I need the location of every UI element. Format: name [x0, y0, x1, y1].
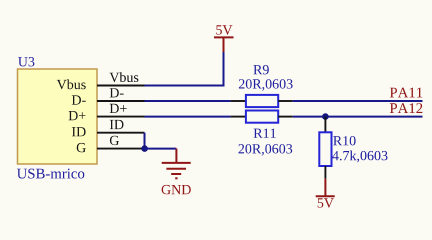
- pin D- (pin line): [97, 100, 145, 102]
- resistor R9 body: [246, 95, 278, 107]
- junction dot on D+ at R10 tap: [322, 113, 329, 120]
- resistor R9 pin left: [231, 100, 246, 102]
- power symbol 5V (top): [214, 37, 234, 52]
- power symbol 5V (bottom): [316, 179, 335, 197]
- designator U3: [18, 57, 34, 66]
- wire D+ from R11 to PA12: [293, 116, 423, 118]
- value 4.7k,0603 (R10): [332, 151, 387, 163]
- net label ID: [110, 120, 124, 129]
- junction dot ID/G node: [141, 145, 148, 152]
- net label PA12: [390, 103, 423, 113]
- pin ID (pin line): [97, 132, 145, 134]
- net label Vbus: [110, 72, 139, 82]
- resistor R11 body: [246, 111, 278, 123]
- net label G: [110, 136, 119, 145]
- wire G junction to GND: [145, 148, 177, 150]
- pin G (pin line): [97, 148, 145, 150]
- net label PA11: [390, 88, 422, 98]
- wire ID down to G junction: [144, 133, 146, 149]
- pin Vbus (pin line): [97, 85, 145, 87]
- pin D+ (pin line): [97, 116, 145, 118]
- wire D- from pin to R9: [145, 100, 231, 102]
- designator R10: [333, 136, 355, 145]
- designator R9: [253, 65, 268, 74]
- pin name G: [77, 143, 86, 152]
- wire Vbus horizontal to 5V stem: [145, 52, 224, 86]
- net label D-: [110, 88, 124, 97]
- IC U3 body: [18, 69, 98, 164]
- value 20R,0603 (R11): [239, 144, 293, 156]
- value 20R,0603 (R9): [239, 79, 293, 91]
- net label D+: [110, 104, 127, 113]
- ground net name GND: [162, 185, 191, 194]
- resistor R10 pin top: [324, 117, 326, 133]
- value label USB-mrico: [17, 169, 84, 179]
- power net name 5V (top): [216, 25, 232, 34]
- power net name 5V (bottom): [318, 198, 334, 207]
- pin name D+: [69, 111, 86, 120]
- designator R11: [254, 129, 276, 138]
- pin name Vbus: [57, 79, 86, 89]
- resistor R11 pin right: [278, 116, 293, 118]
- wire D- from R9 to PA11: [293, 100, 423, 102]
- pin name ID: [72, 127, 86, 136]
- resistor R10 pin bottom: [324, 166, 326, 179]
- resistor R11 pin left: [231, 116, 246, 118]
- pin name D-: [72, 95, 86, 104]
- resistor R9 pin right: [278, 100, 293, 102]
- ground symbol GND: [162, 149, 191, 179]
- resistor R10 body: [319, 132, 331, 166]
- wire D+ from pin to R11: [145, 116, 231, 118]
